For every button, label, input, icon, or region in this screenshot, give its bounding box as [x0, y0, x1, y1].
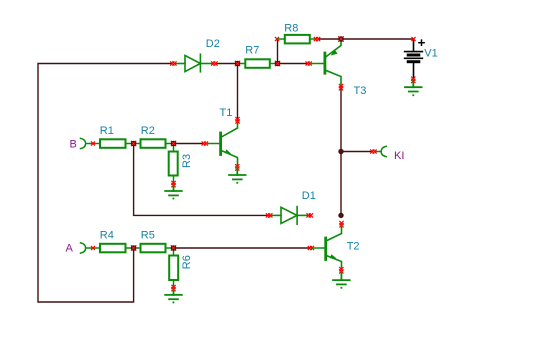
- wire R8 right to top node: [319, 38, 342, 40]
- svg-text:R7: R7: [245, 45, 259, 57]
- junction node D1/T2/T3: [338, 213, 343, 218]
- ground below V1: [405, 81, 422, 91]
- pin X at T1 base: [202, 142, 208, 145]
- resistor R7: [238, 59, 278, 68]
- svg-text:D1: D1: [302, 190, 316, 202]
- svg-text:R2: R2: [141, 125, 155, 137]
- wire node B down and right to D1 anode: [134, 144, 268, 216]
- pin X T1 collector: [236, 118, 239, 124]
- svg-text:D2: D2: [206, 38, 220, 50]
- ground below T2: [333, 272, 350, 285]
- pin X T1 emitter: [236, 165, 239, 171]
- svg-text:A: A: [66, 243, 74, 255]
- wire R7 right node to T3 base: [278, 63, 308, 65]
- svg-text:T3: T3: [354, 85, 367, 97]
- svg-text:R3: R3: [181, 154, 193, 168]
- wire Kl node to output port: [341, 151, 372, 153]
- junction node R4/R5: [131, 245, 137, 251]
- battery V1: [405, 40, 425, 79]
- pin X V1 bottom: [412, 77, 415, 83]
- resistor R4: [100, 244, 126, 253]
- pin X D1 cathode: [307, 214, 313, 217]
- svg-text:T2: T2: [347, 241, 360, 253]
- diode D1: [272, 207, 309, 225]
- corner X at R8 left: [275, 37, 278, 40]
- resistor R6: [169, 248, 178, 288]
- pin X at A port: [91, 246, 94, 249]
- junction node D2/R7/T1: [235, 61, 241, 67]
- pin X V1 top: [412, 37, 415, 40]
- pin X D1 anode: [266, 214, 272, 217]
- pin X Kl port: [371, 150, 377, 153]
- resistor R5: [134, 244, 174, 253]
- pin X at T3 base: [306, 62, 311, 65]
- resistor R3: [169, 144, 178, 184]
- svg-text:R4: R4: [100, 230, 114, 242]
- junction node Kl: [338, 149, 343, 154]
- port Kl: [376, 146, 387, 156]
- pin X at B port: [91, 142, 94, 145]
- resistor R2: [134, 139, 174, 148]
- wire R7 right node up to R8 left: [277, 39, 279, 64]
- svg-text:T1: T1: [220, 107, 233, 119]
- wire node down to T1 collector: [237, 64, 239, 121]
- transistor T1: [208, 121, 238, 166]
- svg-text:R1: R1: [100, 125, 114, 137]
- pin X R8 right: [314, 37, 320, 40]
- pin X at T2 base: [308, 246, 313, 249]
- resistor R1: [100, 139, 126, 148]
- ground below T1: [229, 169, 246, 180]
- wire R2 node to T1 base: [174, 143, 204, 145]
- wire top rail left loop to D2 anode: [38, 64, 172, 303]
- pin X R6 bottom: [172, 285, 175, 291]
- svg-text:R6: R6: [181, 255, 193, 269]
- svg-text:B: B: [70, 139, 77, 151]
- wire T3 emitter down through Kl node to D1 node: [340, 88, 342, 215]
- port A: [81, 243, 101, 253]
- wire top node to V1 plus: [341, 38, 414, 40]
- pin X T3 emitter lower: [339, 84, 342, 90]
- svg-text:KI: KI: [394, 150, 404, 162]
- resistor R8: [278, 35, 316, 44]
- junction node R1/R2: [131, 141, 137, 147]
- ground below R6: [165, 290, 182, 300]
- transistor T2: [313, 226, 342, 269]
- ground below R3: [165, 186, 182, 196]
- pin X D2 anode: [171, 62, 177, 65]
- junction node R5/R6: [171, 245, 177, 251]
- junction node R2/R3: [171, 141, 177, 147]
- diode D2: [176, 54, 213, 72]
- transistor T3: [311, 40, 342, 86]
- wire R5 node to T2 base: [174, 247, 310, 249]
- port B: [81, 138, 101, 148]
- pin X D2 cathode: [212, 62, 218, 65]
- pin X R3 bottom: [172, 181, 175, 187]
- junction node R8/T3e/V1: [338, 36, 344, 42]
- svg-text:R8: R8: [284, 23, 298, 35]
- wire D2 cathode to node R7 left: [217, 63, 238, 65]
- junction node R7/R8/T3: [275, 61, 281, 67]
- pin X T2 emitter: [340, 268, 343, 274]
- svg-text:R5: R5: [141, 230, 155, 242]
- svg-text:V1: V1: [424, 48, 437, 60]
- pin X T2 collector: [340, 221, 343, 227]
